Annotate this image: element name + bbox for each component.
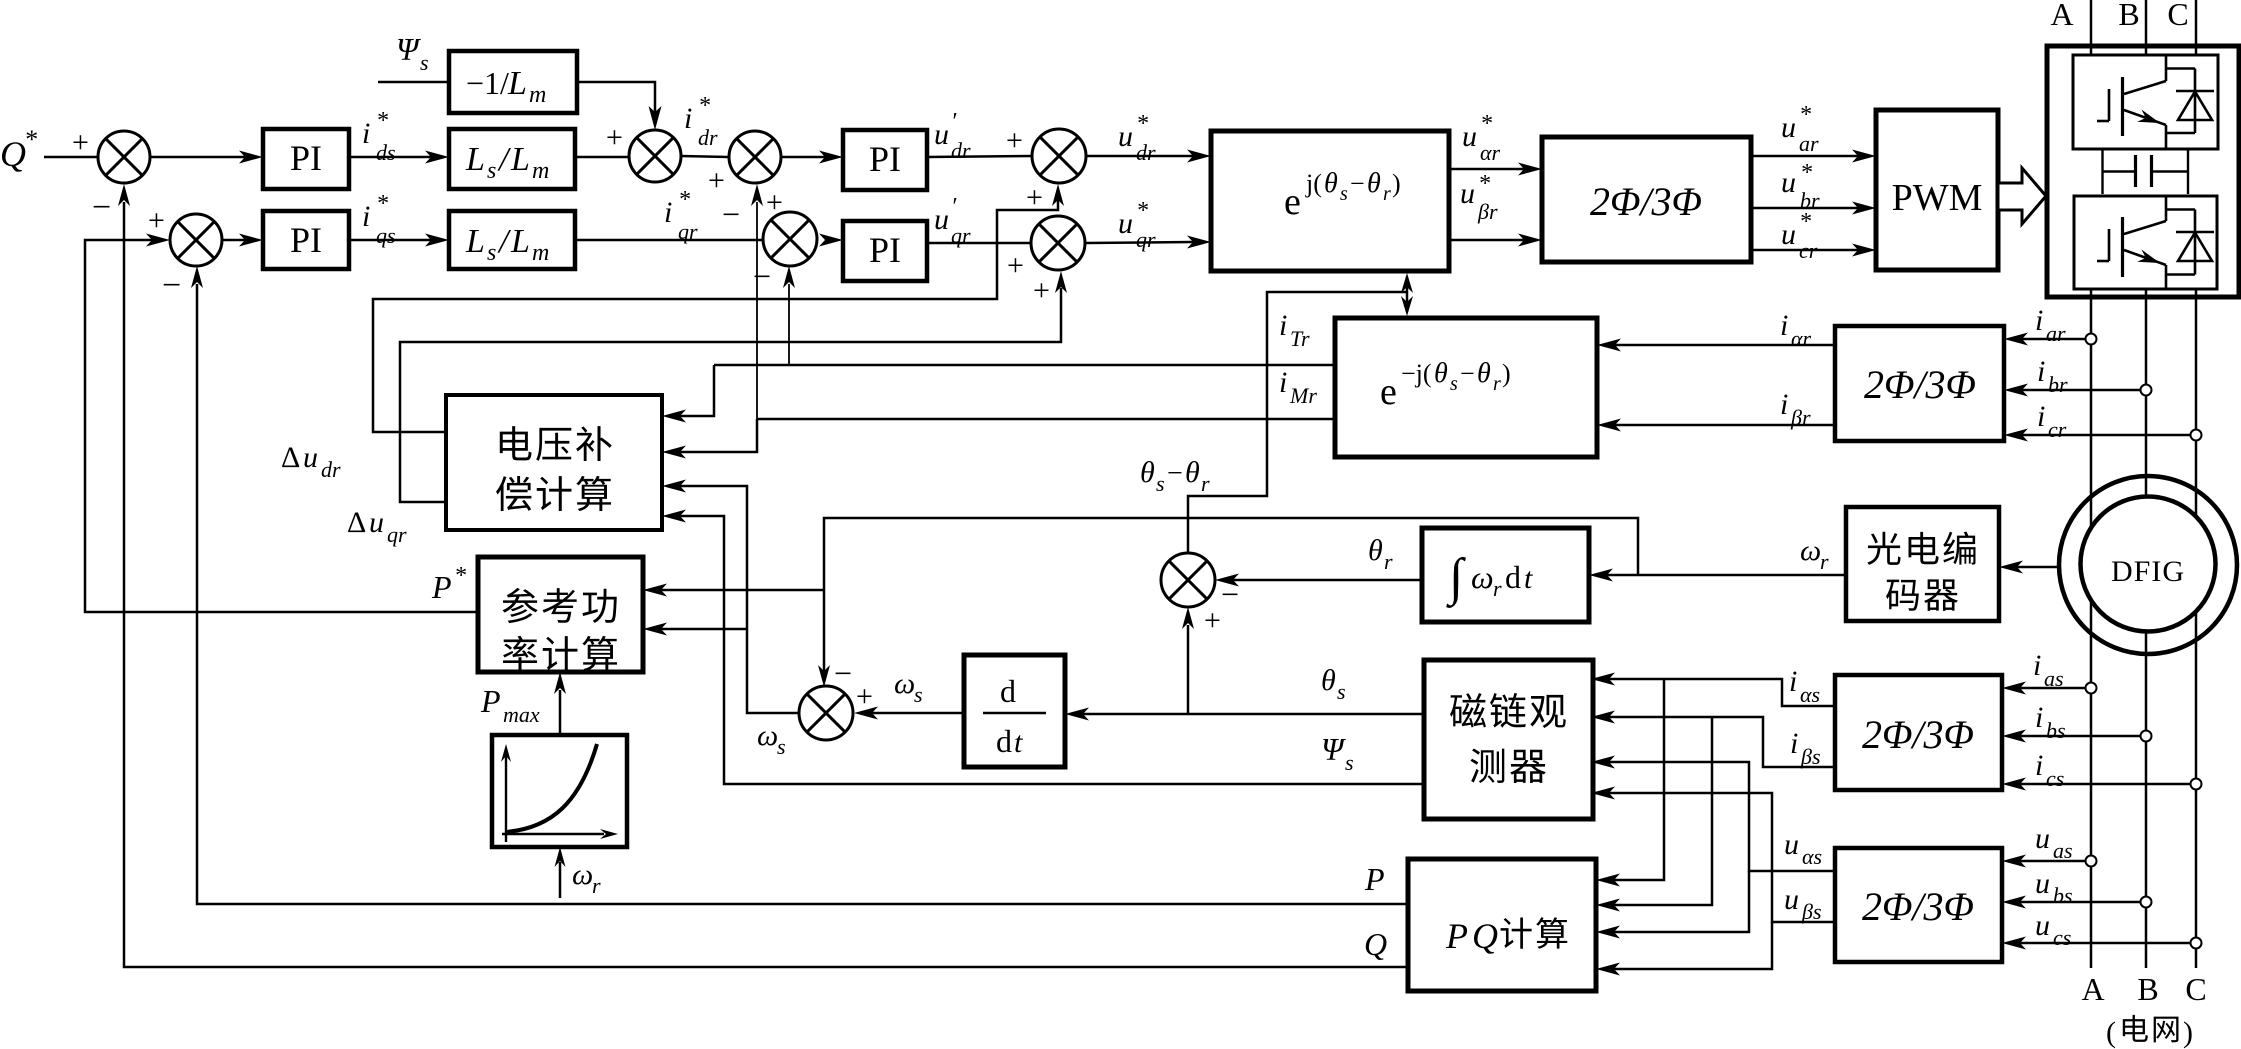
node tap i_cs [2191, 779, 2202, 790]
svg-text:*: * [1136, 111, 1148, 137]
svg-text:ω: ω [894, 667, 915, 700]
svg-text:+: + [708, 164, 725, 197]
summing junction S2 [629, 130, 681, 182]
svg-text:i: i [2035, 701, 2043, 734]
svg-text:u: u [1460, 177, 1475, 210]
svg-text:*: * [1136, 198, 1148, 224]
wire ddt to S8 [872, 712, 964, 715]
wire to PWM c [1751, 249, 1858, 252]
wire i_alpha_r to e-j [1615, 344, 1835, 347]
block integrator [1422, 528, 1589, 622]
wire Psi s stub into -1/Lm [378, 81, 449, 84]
svg-text:βs: βs [1800, 744, 1821, 769]
svg-text:r: r [1201, 471, 1210, 496]
wire S1b to PI2 [222, 239, 245, 242]
wire converter phase stubs top [2090, 46, 2093, 55]
svg-text:+: + [1204, 604, 1221, 637]
wire P* into S1b [146, 234, 170, 247]
block 2phi/3phi rotor voltage [1542, 137, 1751, 262]
svg-text:−: − [1167, 458, 1183, 489]
svg-text:dr: dr [951, 138, 971, 163]
wire omega_s branch to ref in2 [661, 628, 747, 631]
svg-text:i: i [684, 102, 692, 135]
svg-text:t: t [1524, 562, 1533, 595]
wire i_br to 2phi3phi [2022, 389, 2141, 392]
svg-text:e: e [1380, 371, 1397, 413]
svg-text:DFIG: DFIG [2111, 555, 2185, 588]
svg-text:): ) [1392, 169, 1401, 198]
wire S1 to PI1 [150, 156, 245, 159]
svg-text:i: i [1789, 665, 1797, 698]
svg-text:P: P [1364, 861, 1385, 897]
svg-text:s: s [487, 158, 496, 184]
wire u_beta_s branch to PQ [1614, 922, 1772, 969]
svg-text:PWM: PWM [1892, 177, 1983, 219]
svg-text:s: s [1156, 471, 1165, 496]
wire i_Tr from e-j [714, 364, 1335, 367]
wire S4 to PI4 [819, 234, 843, 247]
svg-text:θ: θ [1367, 168, 1381, 199]
svg-text:−: − [722, 196, 740, 232]
wire u_beta_s to observer [1609, 793, 1835, 922]
wire omega_s from S8 to vc and ref [680, 486, 799, 713]
wire to PWM b [1751, 207, 1858, 210]
svg-text:u: u [1118, 120, 1133, 153]
node tap u_cs [2191, 938, 2202, 949]
svg-text:m: m [532, 240, 549, 266]
svg-text:i: i [1279, 309, 1287, 342]
wire phase A line [2090, 0, 2093, 46]
svg-text:B: B [2137, 971, 2158, 1007]
svg-text:u: u [934, 203, 949, 236]
diode top module [2194, 69, 2197, 134]
svg-text:L: L [507, 65, 527, 102]
svg-text:qr: qr [678, 219, 698, 244]
svg-text:+: + [606, 121, 623, 154]
wire u_cs to 2phi3phi [2020, 942, 2190, 945]
wire i_beta_s to observer [1609, 717, 1835, 767]
wire module top to capacitor left [2101, 149, 2103, 194]
wire i_Tr branch to S4 [788, 284, 790, 365]
svg-text:2Φ/3Φ: 2Φ/3Φ [1862, 712, 1974, 757]
svg-text:cs: cs [2046, 766, 2064, 791]
node tap i_ar [2086, 334, 2097, 345]
svg-text:s: s [914, 682, 923, 707]
wire i_as to 2phi3phi [2020, 687, 2086, 690]
svg-text:u: u [1784, 828, 1799, 861]
svg-text:): ) [2183, 1016, 2193, 1049]
node tap i_cr [2191, 430, 2202, 441]
wire i_alpha_s to observer [1609, 679, 1835, 706]
wire i_Mr from e-j [757, 418, 1335, 421]
svg-text:i: i [362, 117, 370, 150]
svg-text:max: max [503, 702, 540, 727]
wire u_as to 2phi3phi [2020, 860, 2086, 863]
wire omega_r stub into curve block [559, 862, 562, 898]
svg-text:*: * [1800, 160, 1812, 186]
block -1/Lm [449, 51, 577, 113]
wire u_alpha_s to observer [1609, 762, 1835, 871]
svg-text:u: u [2035, 909, 2050, 942]
svg-text:+: + [856, 680, 873, 713]
wire S5 to ejblock [1086, 155, 1193, 158]
svg-text:s: s [420, 50, 429, 75]
svg-text:br: br [2048, 372, 2068, 397]
block 2phi/3phi stator current [1835, 675, 2002, 790]
svg-text:d: d [1000, 673, 1016, 709]
svg-text:*: * [376, 108, 388, 134]
svg-text:cs: cs [2053, 925, 2071, 950]
svg-text:*: * [454, 563, 466, 589]
svg-text:L: L [510, 223, 530, 260]
block PWM [1876, 110, 1998, 270]
svg-text:′: ′ [951, 109, 957, 135]
svg-text:u: u [1781, 218, 1796, 251]
wire omega_r branch to ref in1 [661, 589, 824, 592]
svg-text:PI: PI [290, 220, 322, 260]
svg-text:r: r [1493, 576, 1502, 601]
block PQ calc [1408, 859, 1596, 991]
svg-text:P: P [480, 683, 501, 719]
svg-text:θ: θ [1140, 456, 1155, 489]
wire ej to 2phi3phi lower [1450, 239, 1524, 242]
svg-text:qr: qr [387, 522, 407, 547]
wire i_cs to 2phi3phi [2020, 783, 2190, 786]
svg-text:i: i [1780, 309, 1788, 342]
wire LsLm1 to S2 [575, 156, 629, 159]
svg-text:C: C [2167, 0, 2188, 32]
block 2phi/3phi stator voltage [1835, 848, 2002, 962]
wire i_Mr branch to S3 [756, 202, 758, 419]
svg-text:qr: qr [1136, 227, 1156, 252]
svg-text:j(: j( [1305, 169, 1322, 198]
block e^j(thetas-thetar) [1211, 131, 1449, 271]
svg-text:s: s [1345, 750, 1354, 775]
wire i_bs to 2phi3phi [2020, 735, 2141, 738]
block d/dt [964, 655, 1065, 767]
svg-text:dr: dr [1136, 140, 1156, 165]
svg-text:u: u [303, 441, 318, 474]
wire phase C line [2195, 0, 2198, 46]
svg-text:d: d [1505, 559, 1521, 595]
svg-text:−j(: −j( [1401, 359, 1432, 388]
summing junction S6 [1031, 216, 1085, 270]
svg-text:u: u [2035, 867, 2050, 900]
block IGBT module bottom [2074, 196, 2217, 289]
svg-text:βr: βr [1477, 199, 1498, 224]
summing junction S1b [170, 214, 222, 266]
svg-text:s: s [1450, 373, 1458, 395]
wire P feedback to S1b [197, 284, 1408, 904]
svg-text:P: P [1445, 916, 1468, 956]
svg-text:r: r [592, 873, 601, 898]
svg-text:ω: ω [1800, 534, 1821, 567]
wire LsLm2 to S4 [575, 239, 763, 242]
svg-text:s: s [1340, 183, 1348, 205]
node tap i_as [2086, 683, 2097, 694]
machine DFIG circles [2081, 497, 2216, 632]
block voltage compensation calc [446, 395, 662, 530]
svg-text:Ψ: Ψ [396, 31, 421, 67]
svg-text:d: d [996, 723, 1012, 759]
wire DFIG to encoder [2017, 566, 2060, 569]
svg-text:θ: θ [1434, 358, 1448, 389]
block PI4 [843, 221, 927, 281]
svg-text:+: + [1006, 124, 1023, 157]
svg-text:(: ( [2106, 1016, 2116, 1049]
svg-text:−: − [834, 655, 852, 691]
wire encoder to integrator [1607, 574, 1846, 577]
svg-text:): ) [1502, 359, 1511, 388]
svg-text:ar: ar [2046, 321, 2066, 346]
svg-text:i: i [362, 200, 370, 233]
summing junction S4 [763, 212, 817, 266]
wire theta_s from observer to ddt [1083, 713, 1424, 716]
wire phase B line [2145, 0, 2148, 46]
svg-text:*: * [1799, 209, 1811, 235]
wire PI3 to S5 [927, 156, 1032, 157]
svg-text:m: m [529, 82, 546, 108]
wire i_beta_r to e-j [1615, 424, 1835, 427]
svg-text:−1/: −1/ [466, 65, 509, 101]
svg-text:*: * [376, 191, 388, 217]
summing junction S1 [98, 131, 150, 183]
svg-text:Mr: Mr [1289, 383, 1317, 408]
svg-text:i: i [2033, 649, 2041, 682]
block PI1 [263, 129, 349, 189]
wire omega_r long line to S8 [824, 518, 1638, 672]
node tap i_bs [2141, 731, 2152, 742]
svg-text:αs: αs [1802, 844, 1822, 869]
block photoelectric encoder [1846, 507, 1999, 621]
wire Delta-u-qr path to S6 [400, 288, 1061, 502]
svg-text:ar: ar [1799, 131, 1819, 156]
block Ls/Lm 2 [449, 211, 575, 269]
svg-text:∫: ∫ [1446, 549, 1466, 608]
svg-text:L: L [510, 141, 530, 178]
svg-text:2Φ/3Φ: 2Φ/3Φ [1862, 884, 1974, 929]
wire PI2 to LsLm2 [349, 239, 431, 242]
svg-text:L: L [465, 223, 485, 260]
svg-text:s: s [777, 734, 786, 759]
block power curve graph [492, 735, 627, 847]
svg-text:L: L [465, 141, 485, 178]
wire PI4 to S6 [927, 242, 1031, 245]
node tap u_as [2086, 856, 2097, 867]
summing junction S8 [799, 686, 853, 740]
svg-text:αr: αr [1480, 140, 1501, 165]
svg-text:θ: θ [1324, 168, 1338, 199]
block 2phi/3phi rotor current [1835, 326, 2004, 441]
svg-text:PI: PI [869, 139, 901, 179]
svg-text:dr: dr [321, 457, 341, 482]
svg-text:r: r [1493, 373, 1501, 395]
svg-text:i: i [2035, 304, 2043, 337]
wire Q feedback to S1 [124, 202, 1408, 967]
block PI2 [263, 211, 349, 269]
svg-text:u: u [1784, 883, 1799, 916]
svg-text:2Φ/3Φ: 2Φ/3Φ [1590, 179, 1702, 224]
wire Psi_s from observer [680, 516, 1424, 784]
wire converter phase stubs bottom [2090, 289, 2093, 296]
wire ej to 2phi3phi upper [1450, 168, 1524, 171]
wire theta_r integrator to S7 [1233, 579, 1422, 582]
diode bottom module [2194, 210, 2197, 275]
wire P* from ref block to S1b [85, 240, 478, 612]
svg-text:−: − [1460, 359, 1475, 388]
svg-text:i: i [2037, 400, 2045, 433]
svg-text:*: * [24, 125, 37, 154]
svg-text:r: r [1820, 549, 1829, 574]
svg-text:−: − [753, 258, 771, 294]
node tap i_br [2141, 385, 2152, 396]
wire i_ar to 2phi3phi [2022, 338, 2086, 341]
svg-text:+: + [1033, 274, 1050, 307]
svg-text:+: + [1007, 249, 1024, 282]
svg-text:−: − [92, 189, 111, 226]
svg-text:ω: ω [572, 858, 593, 891]
svg-text:ds: ds [376, 140, 396, 165]
wire -1/Lm to S2 top [577, 82, 655, 112]
svg-text:θ: θ [1185, 456, 1200, 489]
svg-text:θ: θ [1368, 534, 1383, 567]
svg-text:r: r [1384, 549, 1393, 574]
svg-text:Δ: Δ [347, 506, 366, 539]
block reference power calc [478, 557, 643, 672]
svg-text:s: s [487, 240, 496, 266]
wire S3 to PI3 [781, 156, 825, 159]
svg-text:A: A [2050, 0, 2073, 32]
svg-text:*: * [678, 187, 690, 213]
svg-text:u: u [1118, 207, 1133, 240]
svg-text:i: i [664, 196, 672, 229]
transistor IGBT top [2121, 77, 2124, 136]
block Ls/Lm 1 [449, 129, 575, 189]
block flux observer [1424, 660, 1593, 819]
svg-text:2Φ/3Φ: 2Φ/3Φ [1864, 362, 1976, 407]
summing junction S7 [1161, 553, 1215, 607]
svg-text:s: s [1337, 679, 1346, 704]
svg-text:βs: βs [1801, 899, 1822, 924]
svg-text:Ψ: Ψ [1321, 731, 1346, 767]
svg-text:θ: θ [1321, 664, 1336, 697]
wire Delta-u-dr path to S5 [373, 200, 1058, 432]
svg-text:e: e [1284, 181, 1301, 223]
wire i_alpha_s branch to PQ [1614, 679, 1664, 880]
transistor IGBT bottom [2121, 217, 2124, 277]
wire to PWM a [1751, 155, 1858, 158]
summing junction S5 [1032, 129, 1086, 183]
block PI3 [843, 130, 927, 190]
block e^-j(thetas-thetar) [1335, 318, 1597, 457]
svg-text:αr: αr [1791, 326, 1812, 351]
svg-text:dr: dr [698, 125, 718, 150]
wire double arrow between ej and e-j [1406, 277, 1409, 312]
wire Pmax curve to ref block [559, 690, 562, 735]
svg-text:+: + [72, 126, 89, 159]
svg-text:m: m [532, 158, 549, 184]
svg-text:PI: PI [290, 138, 322, 178]
wire S2 to S3 [681, 156, 728, 157]
svg-text:u: u [2035, 822, 2050, 855]
svg-text:*: * [1799, 102, 1811, 128]
svg-text:qs: qs [376, 223, 396, 248]
svg-text:ω: ω [1471, 559, 1494, 595]
svg-text:i: i [1780, 388, 1788, 421]
svg-text:i: i [1790, 727, 1798, 760]
svg-text:u: u [369, 506, 384, 539]
svg-text:Δ: Δ [281, 441, 300, 474]
node tap u_bs [2141, 897, 2152, 908]
svg-text:αs: αs [1800, 682, 1820, 707]
svg-text:i: i [2037, 355, 2045, 388]
svg-text:r: r [1383, 183, 1391, 205]
hollow arrow PWM to converter [1998, 168, 2046, 224]
svg-text:*: * [698, 93, 710, 119]
wire theta_s branch to S7 [1187, 625, 1190, 714]
wire i_cr to 2phi3phi [2022, 434, 2190, 437]
wire PI1 to LsLm1 [349, 156, 431, 159]
svg-text:Tr: Tr [1290, 326, 1310, 351]
svg-text:bs: bs [2046, 718, 2066, 743]
svg-text:u: u [1462, 120, 1477, 153]
svg-text:+: + [148, 204, 165, 237]
wire Q* to summing S1 [44, 156, 98, 159]
svg-text:cr: cr [2048, 417, 2067, 442]
svg-text:B: B [2118, 0, 2139, 32]
svg-text:t: t [1014, 726, 1023, 759]
svg-text:*: * [1478, 171, 1490, 197]
capacitor dc link [2134, 155, 2137, 187]
svg-text:A: A [2081, 971, 2104, 1007]
svg-text:′: ′ [951, 194, 957, 220]
wire S6 to ejblock [1085, 242, 1193, 243]
wire u_alpha_s branch to PQ [1614, 871, 1749, 932]
svg-text:C: C [2185, 971, 2206, 1007]
summing junction S3 [729, 131, 781, 183]
svg-text:i: i [1279, 366, 1287, 399]
svg-text:PI: PI [869, 230, 901, 270]
svg-text:bs: bs [2053, 883, 2073, 908]
svg-text:P: P [431, 569, 452, 605]
svg-text:−: − [162, 267, 181, 304]
wire module top to capacitor right [2187, 149, 2189, 194]
wire u_bs to 2phi3phi [2020, 901, 2141, 904]
svg-text:*: * [1480, 111, 1492, 137]
svg-text:i: i [2035, 749, 2043, 782]
svg-text:u: u [934, 118, 949, 151]
svg-text:as: as [2053, 838, 2073, 863]
svg-text:Q: Q [1472, 916, 1498, 956]
svg-text:−: − [1350, 169, 1365, 198]
svg-text:Q: Q [1364, 926, 1387, 962]
svg-text:θ: θ [1477, 358, 1491, 389]
svg-text:u: u [1781, 166, 1796, 199]
svg-text:u: u [1781, 111, 1796, 144]
svg-text:ω: ω [757, 719, 778, 752]
svg-text:Q: Q [0, 134, 26, 174]
block IGBT module top [2073, 55, 2218, 149]
wire i_beta_s branch to PQ [1614, 717, 1712, 905]
wire theta_s-theta_r from S7 to e blocks [1188, 292, 1407, 553]
block converter box [2047, 46, 2239, 297]
